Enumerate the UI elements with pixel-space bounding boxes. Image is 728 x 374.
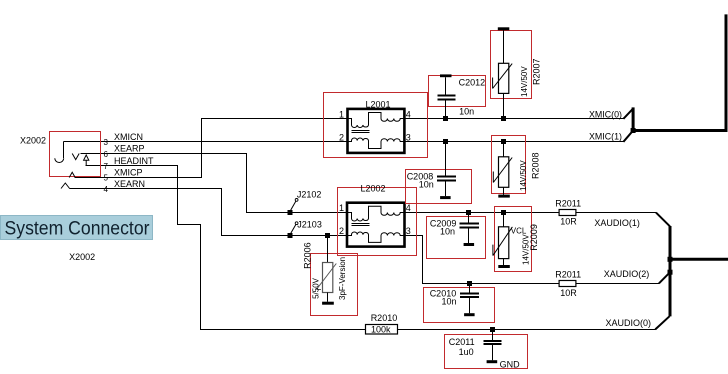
svg-text:10n: 10n — [459, 107, 474, 117]
svg-text:GND: GND — [500, 360, 520, 370]
junction C2009 on XAUDIO(1) line — [466, 210, 471, 215]
junction C2008 on XMIC(1) — [443, 139, 448, 144]
svg-text:100k: 100k — [371, 325, 391, 335]
junction XAUDIO(2) on bus — [668, 270, 673, 275]
svg-text:R2007: R2007 — [532, 58, 542, 85]
svg-text:10R: 10R — [560, 217, 577, 227]
wire XEARN from connector pin4 down to L2002 pin2 — [70, 189, 348, 236]
wire L2002 pin4 to XAUDIO(1) — [405, 212, 657, 214]
svg-text:R2008: R2008 — [531, 152, 541, 179]
capacitor C2011 red annotation box — [445, 335, 528, 369]
XAUDIO bus thick output wire — [670, 258, 728, 261]
wire XMICP from connector pin5 up to L2001 pin1 — [75, 119, 348, 178]
wire L2001 pin3 to XMIC(1) — [404, 141, 623, 143]
capacitor C2012 red annotation box — [429, 76, 486, 107]
varistor R2009 red annotation box — [495, 207, 532, 272]
varistor R2009 — [493, 213, 513, 269]
svg-text:XMICN: XMICN — [114, 132, 143, 142]
capacitor C2012 — [438, 74, 456, 118]
svg-text:R2009: R2009 — [529, 224, 539, 251]
svg-text:1: 1 — [339, 109, 344, 119]
varistor R2006 red annotation box — [311, 254, 358, 316]
svg-text:3pF-Version: 3pF-Version — [338, 257, 347, 300]
svg-text:XAUDIO(0): XAUDIO(0) — [606, 318, 652, 328]
capacitor C2011 — [484, 330, 502, 361]
capacitor C2010 red annotation box — [424, 288, 495, 323]
wire XEARP from connector pin6 down to L2002 pin1 — [81, 154, 348, 213]
connector mic contact hook and riser — [55, 142, 64, 163]
svg-text:XAUDIO(1): XAUDIO(1) — [594, 218, 640, 228]
common-mode choke L2002 — [347, 203, 405, 247]
junction C2012 on XMIC(0) — [443, 116, 448, 121]
jumper J2103 — [288, 222, 299, 238]
junction C2011 on XAUDIO(0) line — [490, 327, 495, 332]
varistor R2006 — [316, 236, 336, 305]
title annotation System Connector — [1, 216, 153, 240]
XMIC bus flag tip — [632, 107, 635, 130]
bus entry bevel XAUDIO(2) — [659, 272, 670, 283]
connector contact caret on XMICP — [69, 172, 75, 177]
XAUDIO bus vertical bar — [669, 226, 672, 316]
wire HEADINT from connector pin7 down to R2010 and XAUDIO(0) — [86, 166, 656, 330]
svg-text:J2102: J2102 — [297, 190, 322, 200]
capacitor C2009 red annotation box — [427, 217, 486, 259]
svg-text:2: 2 — [339, 132, 344, 142]
svg-text:R2011: R2011 — [555, 270, 581, 280]
bus entry bevel XMIC(0) — [623, 109, 633, 119]
junction R2006 tap on L2002 pin2 wire — [325, 233, 330, 238]
svg-text:System Connector: System Connector — [5, 218, 150, 240]
common-mode choke L2001 red annotation box — [324, 93, 428, 158]
jumper J2102 — [288, 199, 299, 216]
junction XAUDIO bus output — [668, 257, 673, 262]
svg-text:10n: 10n — [442, 297, 457, 307]
svg-text:R2010: R2010 — [371, 313, 398, 323]
svg-text:3: 3 — [104, 138, 109, 147]
capacitor C2008 red annotation box — [406, 170, 472, 204]
svg-text:4: 4 — [104, 185, 109, 194]
resistor R2011 lower — [559, 281, 576, 287]
svg-text:4: 4 — [406, 109, 411, 119]
capacitor C2008 — [437, 142, 456, 200]
svg-text:10n: 10n — [440, 227, 455, 237]
junction R2008 on XMIC(1) — [501, 139, 506, 144]
svg-text:7: 7 — [104, 162, 109, 171]
svg-text:XEARN: XEARN — [114, 179, 145, 189]
bus entry bevel XAUDIO(1) — [656, 213, 670, 227]
svg-text:1u0: 1u0 — [459, 347, 474, 357]
bus entry bevel XAUDIO(0) — [655, 316, 669, 329]
svg-text:5/50V: 5/50V — [311, 277, 320, 299]
capacitor C2010 — [460, 284, 479, 317]
svg-text:C2012: C2012 — [459, 78, 486, 88]
varistor R2008 red annotation box — [492, 136, 526, 194]
svg-text:L2002: L2002 — [361, 184, 386, 194]
svg-text:XMIC(1): XMIC(1) — [589, 131, 622, 141]
connector switch contact V — [72, 154, 79, 160]
resistor R2011 upper — [559, 210, 576, 216]
connector X2002 red annotation box — [50, 132, 101, 177]
junction XMIC bus — [631, 128, 636, 133]
svg-text:R2011: R2011 — [555, 198, 581, 208]
svg-text:C2011: C2011 — [449, 337, 475, 347]
wire XMICN from connector pin3 to L2001 pin2 — [64, 141, 348, 143]
varistor R2007 — [493, 27, 513, 118]
bus entry bevel XMIC(1) — [623, 131, 632, 142]
junction R2009 on XAUDIO(1) line — [501, 210, 506, 215]
wire L2001 pin4 to XMIC(0) — [404, 118, 623, 120]
svg-text:XMICP: XMICP — [114, 167, 143, 177]
common-mode choke L2002 red annotation box — [338, 188, 417, 256]
connector contact caret on XEARN — [61, 183, 70, 189]
svg-text:6: 6 — [104, 150, 109, 159]
svg-text:XEARP: XEARP — [114, 144, 145, 154]
svg-text:X2002: X2002 — [69, 252, 95, 262]
XMIC bus thick wire to top right — [632, 14, 726, 130]
common-mode choke L2001 — [348, 109, 405, 153]
svg-text:HEADINT: HEADINT — [114, 156, 154, 166]
svg-text:J2103: J2103 — [297, 219, 322, 229]
svg-text:R2006: R2006 — [303, 242, 313, 269]
svg-text:14V/50V: 14V/50V — [520, 66, 529, 97]
svg-text:5: 5 — [104, 173, 109, 182]
svg-text:XMIC(0): XMIC(0) — [589, 109, 622, 119]
svg-text:10R: 10R — [560, 288, 577, 298]
svg-text:14V/50V: 14V/50V — [519, 160, 528, 191]
junction R2007 on XMIC(0) — [501, 116, 506, 121]
svg-text:VCL: VCL — [511, 227, 527, 236]
svg-text:2: 2 — [339, 226, 344, 236]
junction C2010 on XAUDIO(2) line — [467, 281, 472, 286]
svg-text:XAUDIO(2): XAUDIO(2) — [604, 269, 650, 279]
ground bar for C2011 — [487, 360, 498, 363]
svg-text:10n: 10n — [419, 180, 434, 190]
svg-text:1: 1 — [339, 203, 344, 213]
varistor R2007 red annotation box — [491, 31, 532, 99]
svg-text:4: 4 — [406, 203, 411, 213]
svg-text:X2002: X2002 — [20, 135, 46, 145]
resistor R2010 — [366, 325, 398, 335]
connector switch arrow contact with stem — [84, 155, 89, 160]
capacitor C2009 — [460, 213, 480, 247]
wire L2002 pin3 down to XAUDIO(2) — [405, 236, 660, 284]
varistor R2008 — [493, 142, 512, 198]
svg-text:3: 3 — [406, 226, 411, 236]
svg-text:3: 3 — [406, 132, 411, 142]
svg-text:L2001: L2001 — [366, 99, 391, 109]
